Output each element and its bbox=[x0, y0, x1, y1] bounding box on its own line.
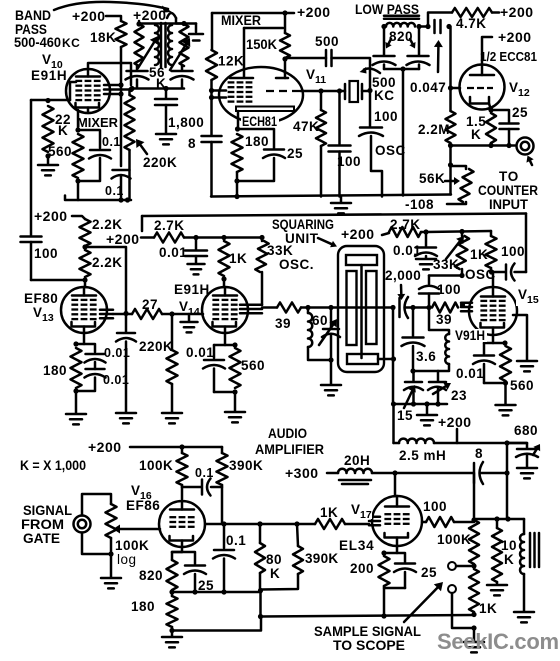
junction dot tank bottom bbox=[328, 357, 333, 362]
cathode RC bottom wire bbox=[237, 158, 274, 181]
transformer bottom wire bbox=[131, 87, 184, 90]
tube V14 (E91H) bbox=[202, 287, 248, 333]
junction dot osc node bbox=[459, 273, 464, 278]
junction dot V14 cathode bbox=[232, 342, 237, 347]
svg-text:UNIT: UNIT bbox=[285, 231, 319, 246]
pot bottom wire bbox=[82, 533, 111, 555]
wire V15 cathode bbox=[484, 342, 505, 345]
junction dot 560 bottom bbox=[75, 178, 80, 183]
svg-text:2.2M: 2.2M bbox=[418, 122, 450, 137]
wire to ground bbox=[75, 391, 78, 413]
left rail lower bbox=[30, 242, 33, 280]
tube V15 bbox=[469, 287, 517, 335]
choke 20H bbox=[338, 469, 372, 473]
junction dot 22K top bbox=[45, 98, 50, 103]
capacitor 23 variable bbox=[437, 371, 440, 381]
V11 cathode lead bbox=[237, 111, 240, 128]
V15 plate lead bbox=[492, 272, 495, 287]
junction dots transformer top bbox=[136, 21, 141, 26]
svg-text:47K: 47K bbox=[293, 119, 319, 134]
svg-text:100: 100 bbox=[423, 499, 447, 514]
V13 plate lead bbox=[84, 280, 87, 287]
svg-text:0.047: 0.047 bbox=[410, 80, 446, 95]
svg-text:1K: 1K bbox=[470, 247, 488, 262]
arrow through secondary bbox=[170, 44, 186, 70]
junction dots V11 grid bbox=[209, 88, 214, 93]
svg-text:AUDIO: AUDIO bbox=[268, 426, 307, 441]
tube V16 (EF86) bbox=[159, 501, 205, 547]
label V15 bbox=[516, 288, 540, 306]
capacitor 0.01 (V14 screen) bbox=[195, 238, 198, 250]
svg-text:1,800: 1,800 bbox=[168, 115, 204, 130]
capacitor 0.1 (coupling V16) bbox=[181, 486, 184, 489]
wire 1K to ground bbox=[473, 628, 476, 641]
output node wire bbox=[474, 518, 524, 521]
capacitor 100 (crystal) bbox=[338, 91, 341, 144]
junction dots transformer bottom bbox=[129, 86, 134, 91]
ground V15 right bbox=[517, 360, 537, 363]
screen node wire bbox=[196, 236, 262, 239]
squaring center stem bbox=[360, 265, 363, 358]
svg-text:+200: +200 bbox=[297, 4, 331, 20]
leader arrow to unit bbox=[318, 238, 332, 244]
resistor 1K (V17 grid) bbox=[315, 519, 345, 529]
plate supply wire bbox=[31, 279, 85, 282]
squaring top bar bbox=[346, 255, 377, 265]
V16 plate output wire bbox=[205, 523, 315, 526]
junction dots low pass bbox=[381, 24, 386, 29]
arrow through 33K bbox=[446, 242, 460, 259]
svg-text:18K: 18K bbox=[90, 30, 116, 45]
wire choke to cap 8 bbox=[372, 472, 473, 475]
squaring right tine bbox=[366, 271, 377, 344]
ground below 680 bbox=[517, 467, 537, 470]
resistor 39 (V15) bbox=[432, 303, 458, 313]
svg-text:0.01: 0.01 bbox=[456, 366, 484, 381]
heptode plate feed bbox=[244, 27, 283, 30]
ground below 1K bbox=[464, 641, 484, 644]
V12 plate bar bbox=[470, 74, 494, 77]
svg-text:2.5 mH: 2.5 mH bbox=[399, 448, 446, 463]
V11 triode plate bar bbox=[276, 77, 288, 80]
counter rail left stub bbox=[141, 216, 144, 231]
ground below 1800 bbox=[156, 133, 176, 136]
junction dot V17 plate feed bbox=[392, 470, 397, 475]
svg-text:K = X 1,000: K = X 1,000 bbox=[20, 458, 86, 473]
resistor 39 (left) bbox=[277, 303, 301, 313]
svg-text:TO SCOPE: TO SCOPE bbox=[333, 638, 405, 653]
junction dot 0.01 (V15) bbox=[423, 229, 428, 234]
V12 grid lead bbox=[451, 87, 460, 90]
V17 cathode lead bbox=[396, 546, 399, 553]
wire to ground (V15) bbox=[504, 383, 507, 404]
capacitor 100 (osc fb) bbox=[428, 276, 431, 285]
wire +200 to 2.7K(2) bbox=[382, 233, 389, 235]
junction dot terminal 2 wire bbox=[471, 625, 476, 630]
junction dot 0.047 right bbox=[446, 24, 451, 29]
junction dot V13 cathode bbox=[73, 341, 78, 346]
svg-text:4.7K: 4.7K bbox=[456, 16, 487, 31]
wire cathode bracket top bbox=[78, 130, 100, 148]
ground below pot bbox=[101, 577, 121, 580]
column to 2.5mH bbox=[392, 404, 395, 443]
junction dot V17 cathode bbox=[381, 550, 386, 555]
V11 triode grid dashed line bbox=[266, 90, 301, 92]
svg-text:39: 39 bbox=[436, 312, 452, 327]
label V17 bbox=[350, 502, 372, 519]
wire 0.047 node down bbox=[449, 27, 452, 112]
wire +200 to 2.7K bbox=[141, 236, 154, 239]
junction dot cathode bbox=[488, 107, 493, 112]
osc wire 2 bbox=[492, 271, 506, 274]
column x507 bbox=[506, 443, 509, 519]
terminal to counter bbox=[517, 138, 534, 155]
osc capacitor 100 bbox=[369, 91, 372, 127]
wire 8 cap to common rail bbox=[210, 142, 213, 197]
junction dot 33K top bbox=[259, 235, 264, 240]
junction dot on sample line bbox=[381, 613, 386, 618]
low pass bottom wire bbox=[384, 68, 419, 71]
resistor 2.2K second bbox=[80, 250, 91, 277]
junction dot 47K top bbox=[318, 88, 323, 93]
capacitor 25 (V16) bbox=[172, 552, 195, 564]
coupling cap V13-V14 bbox=[125, 314, 128, 333]
coil V91H bbox=[445, 334, 449, 364]
V17 plate lead bbox=[394, 473, 397, 496]
svg-text:0.1: 0.1 bbox=[195, 466, 214, 480]
resistor 390K (top) bbox=[221, 447, 224, 453]
svg-text:K: K bbox=[58, 123, 68, 138]
svg-text:EF86: EF86 bbox=[126, 498, 160, 513]
svg-text:-108: -108 bbox=[405, 197, 434, 212]
tube V10 (E91H mixer) bbox=[66, 69, 110, 113]
svg-text:+200: +200 bbox=[498, 29, 532, 45]
svg-text:100K: 100K bbox=[115, 538, 149, 553]
junction dot 27 right bbox=[169, 311, 174, 316]
junction dots V10 grid bbox=[118, 82, 123, 87]
svg-text:560: 560 bbox=[241, 358, 265, 373]
resistor 2.7K horizontal bbox=[154, 233, 184, 243]
capacitor 0.01 (V15) bbox=[425, 232, 428, 246]
V10 cathode drop bbox=[77, 110, 80, 130]
svg-text:10: 10 bbox=[501, 538, 517, 553]
resistor 150K bbox=[284, 13, 287, 33]
junction dots output bbox=[494, 516, 499, 521]
svg-text:560: 560 bbox=[48, 144, 72, 159]
junction dots caps bottom bbox=[411, 401, 416, 406]
wire 27 to V14 bbox=[162, 313, 203, 316]
ground below 0.01 bbox=[188, 263, 205, 266]
leader from BAND PASS to transformer bbox=[54, 2, 168, 10]
wire 12K to V11 grids bbox=[210, 80, 213, 135]
wire 180 to common bbox=[172, 617, 261, 631]
capacitor 25 (V12) bbox=[491, 110, 509, 122]
wire transformer hop to mixer box bbox=[167, 13, 176, 18]
svg-text:+200: +200 bbox=[438, 414, 472, 430]
junction dot 0.01 node bbox=[193, 235, 198, 240]
capacitor 1800 bbox=[165, 89, 168, 99]
tube V13 (EF80) bbox=[61, 287, 107, 333]
svg-text:0.1: 0.1 bbox=[102, 135, 121, 149]
svg-text:80: 80 bbox=[266, 552, 282, 567]
capacitor 0.01 (V15 cath) bbox=[483, 343, 486, 354]
wire up to 4.7K bbox=[428, 13, 452, 27]
arrow through primary bbox=[138, 42, 154, 68]
wire cathode to 820 bbox=[172, 551, 182, 554]
svg-text:3.6: 3.6 bbox=[416, 349, 436, 364]
V17 grid triple bbox=[369, 516, 380, 519]
svg-text:8: 8 bbox=[188, 136, 196, 151]
svg-text:220K: 220K bbox=[139, 339, 173, 354]
V91H coil wire bbox=[429, 308, 449, 335]
svg-text:COUNTER: COUNTER bbox=[478, 183, 538, 198]
resistor 560 (V10 cathode) bbox=[73, 134, 84, 178]
tuning cap left bbox=[136, 66, 139, 70]
pot top wire bbox=[82, 494, 111, 516]
arrow to right cap bbox=[410, 39, 412, 44]
wire 1K to V17 bbox=[345, 523, 369, 526]
resistor 200 bbox=[379, 556, 390, 586]
svg-text:180: 180 bbox=[43, 363, 67, 378]
svg-text:20H: 20H bbox=[344, 453, 370, 468]
V14 output triple lines bbox=[240, 304, 262, 307]
wire cathode bottom (V17) bbox=[384, 586, 405, 588]
junction dot 150K bottom bbox=[282, 56, 287, 61]
svg-text:K: K bbox=[270, 566, 280, 581]
junction dot 180 bottom bbox=[234, 178, 239, 183]
wire to crystal bbox=[321, 90, 340, 93]
wire 2.2M to common rail bbox=[449, 146, 452, 195]
svg-text:0.01: 0.01 bbox=[393, 243, 421, 258]
junction dots cathode wire bbox=[169, 589, 174, 594]
coupling cap 500 bbox=[285, 58, 326, 59]
label V91H bbox=[454, 329, 487, 342]
wire to ground bbox=[234, 392, 237, 411]
svg-text:E91H: E91H bbox=[31, 68, 67, 83]
junction dot 560 bottom bbox=[232, 389, 237, 394]
svg-text:220K: 220K bbox=[143, 155, 177, 170]
svg-text:K: K bbox=[504, 552, 514, 567]
V12 grid dashes bbox=[467, 87, 493, 89]
junction dot 1K bottom bbox=[471, 612, 476, 617]
wire pot to ground bbox=[110, 538, 113, 577]
resistor 33K (V14 osc) bbox=[261, 238, 264, 242]
ground below 180 bbox=[66, 413, 86, 416]
junction dot V15 cathode bbox=[502, 340, 507, 345]
wire V15 cath bottom bbox=[484, 382, 506, 385]
svg-text:1/2 ECC81: 1/2 ECC81 bbox=[480, 50, 537, 64]
wire cathode top (V17) bbox=[384, 553, 405, 562]
capacitor 0.01 a bbox=[86, 353, 105, 356]
svg-text:0.01: 0.01 bbox=[186, 345, 214, 360]
resistor 12K bbox=[206, 50, 217, 80]
svg-text:V91H: V91H bbox=[455, 328, 485, 343]
transformer primary left zigzag bbox=[135, 24, 144, 66]
junction dot 33K (V15) bbox=[459, 229, 464, 234]
svg-text:180: 180 bbox=[245, 134, 269, 149]
arrow sample to terminals bbox=[404, 588, 437, 622]
svg-text:56K: 56K bbox=[419, 171, 445, 186]
sample signal wire bbox=[261, 615, 475, 617]
svg-text:390K: 390K bbox=[229, 458, 263, 473]
transformer primary coil bbox=[155, 25, 159, 65]
cathode bottom wire bbox=[172, 591, 261, 594]
resistor 220K bbox=[125, 95, 135, 150]
low pass right cap bbox=[418, 27, 421, 56]
svg-text:OSC: OSC bbox=[465, 267, 496, 282]
resistor 180 (V16) bbox=[171, 592, 174, 596]
svg-text:SeekIC.com: SeekIC.com bbox=[437, 629, 559, 654]
ground on common rail bbox=[340, 197, 343, 203]
capacitor 8 (audio) bbox=[473, 463, 476, 483]
svg-text:OSC.: OSC. bbox=[279, 257, 314, 272]
svg-text:100: 100 bbox=[501, 244, 525, 259]
svg-text:MIXER: MIXER bbox=[77, 116, 118, 130]
svg-text:KC: KC bbox=[62, 36, 80, 50]
left column from rail bbox=[211, 13, 214, 50]
svg-text:100: 100 bbox=[437, 282, 461, 297]
wire cathode top bbox=[214, 344, 235, 347]
svg-text:K: K bbox=[471, 127, 481, 142]
resistor 2.2K first bbox=[80, 219, 91, 246]
arrow 680 bbox=[533, 449, 537, 455]
svg-text:KC: KC bbox=[374, 88, 395, 103]
junction dot cathode node bbox=[235, 126, 240, 131]
junction dot 3.6 bottom bbox=[410, 368, 415, 373]
svg-text:25: 25 bbox=[512, 105, 528, 120]
wire lower bus bbox=[65, 196, 131, 201]
resistor 18K bbox=[116, 21, 127, 47]
svg-text:OSC: OSC bbox=[375, 143, 406, 158]
svg-text:2.7K: 2.7K bbox=[154, 218, 185, 233]
transformer top wire bbox=[139, 22, 184, 25]
svg-text:180: 180 bbox=[131, 599, 155, 614]
resistor 220K (2) bbox=[171, 314, 174, 350]
capacitor 0.01 b bbox=[86, 368, 105, 371]
junction dot common bbox=[258, 588, 263, 593]
label ECH81 bbox=[241, 115, 279, 127]
ground below coupling bbox=[116, 412, 136, 415]
resistor 4.7K bbox=[452, 8, 492, 17]
V13 output wire bbox=[113, 313, 132, 316]
svg-text:2,000: 2,000 bbox=[385, 268, 421, 283]
svg-text:EF80: EF80 bbox=[24, 291, 58, 306]
ground below 180 (V16) bbox=[171, 631, 174, 637]
wire V91H bottom bbox=[438, 364, 449, 371]
resistor 1K (V14) bbox=[219, 241, 230, 276]
wire 2.5mH to +200 node bbox=[434, 442, 527, 445]
caps bottom wire bbox=[394, 403, 447, 406]
resistor 100K (V16) bbox=[181, 447, 184, 453]
V12 cathode bracket bbox=[470, 97, 489, 104]
wire 56K to -108 bbox=[447, 202, 466, 204]
wire 39 to tank bbox=[301, 306, 331, 309]
ground below tank bbox=[321, 384, 341, 387]
junction dot B+ node bbox=[504, 440, 509, 445]
wire cathode bracket bottom bbox=[78, 158, 100, 181]
junction dots plate wire bbox=[221, 521, 226, 526]
resistor 22K bbox=[43, 106, 54, 152]
svg-text:820: 820 bbox=[389, 29, 413, 44]
ground below coil bbox=[514, 611, 534, 614]
arrow through 15 bbox=[404, 391, 412, 408]
wire tank to ground bbox=[330, 360, 333, 384]
wire +200 rail to label bbox=[285, 12, 294, 15]
sample terminal 1 bbox=[448, 562, 456, 570]
resistor 560 (V14) bbox=[230, 348, 241, 388]
junction dot between 2.2K bbox=[82, 244, 87, 249]
resistor 560 (V15) bbox=[500, 346, 511, 381]
transformer secondary zigzag bbox=[180, 24, 189, 66]
sample terminal 2 bbox=[448, 585, 456, 593]
ground below 560 (V15) bbox=[496, 404, 516, 407]
junction dot column bbox=[391, 401, 396, 406]
capacitor 680 variable bbox=[507, 443, 527, 448]
pot wiper arrow bbox=[120, 528, 160, 531]
svg-text:2.7K: 2.7K bbox=[390, 217, 421, 232]
V12 plate wire bbox=[482, 37, 492, 64]
junction dot on common rail bbox=[234, 194, 239, 199]
svg-text:SAMPLE SIGNAL: SAMPLE SIGNAL bbox=[314, 624, 421, 639]
wire +200 label drop bbox=[456, 429, 459, 443]
svg-text:GATE: GATE bbox=[23, 531, 60, 546]
junction dot 80K top bbox=[257, 521, 262, 526]
wire 2000 node bbox=[405, 306, 429, 309]
V11 cathode bar bbox=[236, 107, 294, 112]
wire cathode bottom bbox=[76, 378, 95, 392]
main wire from V14 bbox=[262, 306, 277, 309]
svg-text:39: 39 bbox=[275, 316, 291, 331]
resistor 100 (V17 plate) bbox=[422, 521, 426, 524]
ground below 560 bbox=[225, 411, 245, 414]
resistor 100K (V17) bbox=[469, 520, 479, 564]
capacitor 25 (V11) bbox=[264, 148, 284, 151]
wire: +200 supply to 18K bbox=[106, 16, 121, 21]
V11 triode grid wire bbox=[301, 90, 321, 93]
V11 grid double lines bbox=[212, 89, 227, 92]
wire 2.7K to node bbox=[184, 236, 196, 239]
junction dot plate node bbox=[471, 517, 476, 522]
pot 100K log bbox=[106, 504, 117, 538]
left column to B+ bbox=[392, 308, 395, 405]
svg-text:+200: +200 bbox=[106, 231, 140, 247]
left rail bbox=[30, 100, 33, 236]
capacitor 0.1 bridge bbox=[182, 486, 201, 489]
svg-text:+200: +200 bbox=[88, 439, 122, 455]
junction dots on bus bbox=[118, 197, 123, 202]
resistor 1K (V15) bbox=[490, 231, 493, 236]
grid line 0.1 capacitor bbox=[113, 169, 130, 172]
svg-text:150K: 150K bbox=[246, 37, 277, 52]
svg-text:15: 15 bbox=[397, 408, 413, 423]
resistor 820 bbox=[167, 560, 178, 590]
capacitor 0.01 (V14) bbox=[213, 345, 216, 358]
junction dot 0.047 left bbox=[425, 24, 430, 29]
column 474 bbox=[473, 473, 476, 518]
resistor 33K (V15) variable bbox=[461, 232, 464, 237]
svg-text:MIXER: MIXER bbox=[221, 12, 261, 28]
counter rail right corner bbox=[525, 214, 528, 273]
capacitor 100 (left) bbox=[21, 235, 42, 238]
junction dot 2.2M node bbox=[448, 162, 453, 167]
junction dot cathode node bbox=[75, 127, 80, 132]
junction dots cathode wire bbox=[488, 143, 493, 148]
junction dot tank right bbox=[328, 305, 333, 310]
resistor 390K (V17 grid) bbox=[297, 524, 298, 546]
ground below 10K bbox=[487, 584, 507, 587]
wire: 18K bottom to grid rail bbox=[120, 47, 123, 166]
svg-text:log: log bbox=[117, 552, 137, 567]
